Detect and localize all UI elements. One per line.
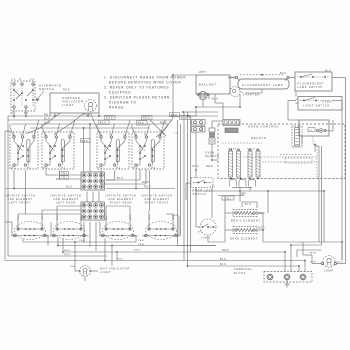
svg-text:RED: RED — [83, 113, 90, 116]
alternate switch — [11, 78, 36, 115]
svg-text:1. DISCONNECT RANGE FROM POWE: 1. DISCONNECT RANGE FROM POWER — [104, 76, 186, 80]
label infinite switch and element right front — [141, 195, 172, 205]
wires oven sensor area — [193, 121, 224, 170]
relay bake — [229, 147, 241, 177]
svg-text:BAKE ELEMENT: BAKE ELEMENT — [230, 237, 258, 240]
svg-text:L1: L1 — [12, 133, 16, 136]
wire alternate switch to harness — [14, 91, 44, 118]
svg-text:HOT INDICATOR: HOT INDICATOR — [100, 267, 130, 271]
relay contacts — [230, 178, 259, 202]
label hot indicator light — [100, 267, 130, 275]
svg-text:OVEN: OVEN — [322, 101, 332, 104]
wires between sw2 and sw3 down to connector — [81, 124, 91, 172]
svg-text:H1: H1 — [116, 167, 121, 170]
wire pair mid right verticals — [315, 146, 322, 242]
wires lamp — [311, 242, 346, 264]
svg-text:RED: RED — [206, 166, 213, 168]
svg-text:BROIL ELEMENT: BROIL ELEMENT — [231, 220, 261, 223]
svg-text:2b: 2b — [178, 236, 182, 238]
svg-text:BLOCK: BLOCK — [234, 272, 246, 275]
infinite switch left front — [10, 132, 38, 170]
wire stubs from switch bottom terminals — [14, 170, 150, 214]
svg-text:DIAGRAM TO: DIAGRAM TO — [109, 101, 137, 105]
svg-text:GRY: GRY — [81, 214, 83, 220]
svg-text:BLU: BLU — [106, 215, 108, 220]
wire bus below switches — [5, 186, 175, 189]
surface element right front — [142, 220, 182, 240]
svg-text:RED: RED — [143, 117, 150, 120]
svg-text:BLK: BLK — [66, 186, 73, 189]
ground — [285, 280, 290, 287]
svg-text:TAN: TAN — [70, 265, 76, 268]
surface indicator light — [50, 89, 99, 116]
svg-text:BLU: BLU — [245, 204, 252, 206]
svg-text:WHT: WHT — [310, 253, 317, 255]
svg-text:TAN: TAN — [138, 239, 144, 242]
svg-text:SENSOR: SENSOR — [205, 155, 220, 158]
svg-text:RIGHT REAR: RIGHT REAR — [110, 201, 132, 204]
hot indicator light — [79, 266, 91, 277]
wires top right — [173, 75, 346, 264]
svg-text:RIGHT FRONT: RIGHT FRONT — [145, 201, 170, 204]
svg-text:BLK: BLK — [220, 264, 227, 266]
oven light assembly — [292, 120, 329, 152]
svg-text:BLK: BLK — [220, 259, 227, 261]
label infinite switch and element left front — [4, 195, 35, 205]
bake element — [230, 227, 265, 241]
svg-text:TAN: TAN — [79, 239, 85, 242]
svg-text:LIMIT: LIMIT — [201, 237, 211, 240]
svg-text:LEFT FRONT: LEFT FRONT — [9, 201, 31, 204]
wire feeders into switch top terminals — [10, 120, 165, 136]
wires switches to connector upper — [56, 169, 149, 184]
wire middle bus verticals — [160, 75, 196, 266]
svg-text:H2: H2 — [134, 167, 139, 170]
wires hot indicator — [70, 242, 99, 281]
label infinite switch and element left rear — [50, 195, 81, 205]
wires right half connections — [186, 160, 218, 242]
svg-text:YEL: YEL — [61, 172, 68, 175]
svg-text:FLUORESCENT: FLUORESCENT — [298, 83, 325, 86]
svg-text:BLK: BLK — [117, 177, 124, 180]
oven control internal dashed wires — [222, 143, 317, 179]
svg-text:LAMP: LAMP — [324, 270, 334, 273]
terminal block — [234, 268, 312, 282]
door lock switch — [191, 178, 216, 196]
oven sensor — [192, 120, 220, 158]
wires oven elements — [225, 192, 263, 242]
svg-text:RED: RED — [173, 215, 180, 217]
starter — [230, 87, 260, 97]
connector block lower — [81, 202, 104, 220]
svg-text:BALLAST: BALLAST — [199, 83, 217, 87]
svg-text:H1: H1 — [151, 167, 156, 170]
svg-text:L2: L2 — [31, 78, 35, 81]
infinite switch right rear — [97, 132, 129, 170]
svg-text:YEL: YEL — [225, 199, 232, 201]
oven lamp — [321, 256, 336, 273]
svg-text:LAMP SWITCH: LAMP SWITCH — [298, 86, 324, 89]
svg-text:RED: RED — [117, 259, 124, 261]
svg-text:2b: 2b — [86, 236, 90, 238]
svg-text:H2: H2 — [12, 167, 17, 170]
fluorescent lamp switch — [295, 70, 332, 91]
notes — [104, 76, 186, 110]
svg-text:BLK: BLK — [325, 70, 332, 72]
svg-text:WHT: WHT — [228, 78, 235, 80]
svg-text:LIGHT SWITCH: LIGHT SWITCH — [303, 104, 330, 107]
wires connector block 1 to block 2 — [87, 192, 99, 203]
svg-text:BLK: BLK — [337, 262, 343, 264]
svg-text:RED: RED — [82, 141, 89, 143]
svg-text:2. REFER ONLY TO FEATURES: 2. REFER ONLY TO FEATURES — [104, 86, 169, 90]
infinite switch right front — [132, 132, 164, 170]
svg-text:H1: H1 — [27, 167, 32, 170]
svg-text:WHT: WHT — [199, 71, 207, 74]
svg-text:BLK: BLK — [138, 122, 145, 125]
surface element left front — [11, 220, 51, 240]
svg-text:L1: L1 — [99, 133, 103, 136]
svg-text:L1: L1 — [12, 78, 16, 81]
svg-text:TERMINAL: TERMINAL — [234, 268, 253, 271]
svg-text:EQUIPPED: EQUIPPED — [109, 91, 131, 95]
svg-text:BEFORE REMOVING WIRE COVER: BEFORE REMOVING WIRE COVER — [109, 81, 181, 85]
svg-text:RED: RED — [63, 89, 70, 92]
svg-text:L1: L1 — [134, 133, 138, 136]
svg-text:H2: H2 — [44, 167, 49, 170]
svg-text:RED: RED — [44, 113, 51, 116]
label infinite switch and element right rear — [105, 195, 136, 205]
svg-text:RELAYS: RELAYS — [251, 136, 266, 140]
svg-text:3. SERVICER PLEASE RETURN: 3. SERVICER PLEASE RETURN — [104, 96, 170, 100]
fluorescent lamp — [228, 73, 289, 89]
wire buses bottom right — [178, 238, 343, 272]
svg-text:NO: NO — [198, 231, 203, 233]
svg-text:RED: RED — [142, 181, 149, 184]
svg-text:RED: RED — [171, 115, 178, 117]
wire labels oven elements — [222, 194, 252, 207]
svg-text:FLUORESCENT LAMP: FLUORESCENT LAMP — [242, 83, 283, 87]
svg-text:YEL: YEL — [210, 186, 216, 188]
surface element right rear — [99, 220, 139, 240]
svg-text:H1: H1 — [61, 167, 66, 170]
svg-text:L2: L2 — [309, 130, 313, 132]
svg-text:BLU: BLU — [193, 166, 200, 168]
transformer — [225, 128, 238, 133]
svg-text:1b: 1b — [11, 236, 15, 238]
svg-text:BLK: BLK — [100, 121, 107, 124]
connector oven control top — [223, 120, 240, 126]
svg-text:RED: RED — [144, 186, 151, 189]
svg-text:OVEN CONTROL: OVEN CONTROL — [248, 125, 279, 129]
svg-text:1b: 1b — [99, 236, 103, 238]
wires elements to buses — [5, 206, 179, 246]
wires below oven control box — [196, 187, 324, 242]
svg-text:YEL: YEL — [61, 176, 68, 179]
svg-text:RED: RED — [258, 228, 265, 230]
svg-text:1b: 1b — [142, 236, 146, 238]
svg-text:BLK: BLK — [280, 73, 287, 75]
svg-text:LIGHT: LIGHT — [100, 270, 111, 274]
wire buses bottom left — [5, 238, 305, 266]
svg-text:RED: RED — [106, 117, 113, 120]
infinite switch left rear — [42, 132, 74, 170]
svg-text:BLK: BLK — [44, 117, 51, 120]
svg-text:1b: 1b — [50, 236, 54, 238]
oven light switch — [296, 91, 343, 110]
svg-text:L2: L2 — [174, 133, 178, 135]
svg-text:RED: RED — [64, 250, 71, 252]
svg-text:BLK: BLK — [181, 117, 188, 120]
surface element left rear — [50, 220, 90, 240]
svg-text:RED: RED — [64, 254, 71, 256]
wires connector block 2 down — [84, 222, 96, 251]
svg-text:BLK: BLK — [212, 98, 219, 101]
svg-text:RED: RED — [222, 250, 229, 252]
element wire labels — [18, 214, 175, 220]
harness wire labels — [44, 113, 190, 125]
svg-text:RED: RED — [134, 249, 141, 251]
svg-text:L1: L1 — [44, 133, 48, 136]
svg-text:TAN: TAN — [138, 243, 144, 246]
svg-text:W: W — [296, 103, 299, 105]
svg-text:W1: W1 — [11, 112, 16, 115]
svg-text:SWITCH: SWITCH — [39, 87, 55, 91]
limit switch — [198, 219, 216, 240]
svg-text:2b: 2b — [135, 236, 139, 238]
wire left edge verticals — [5, 116, 10, 261]
svg-text:P: P — [20, 78, 22, 81]
wire harness buses upper left — [8, 116, 196, 128]
label alternate switch — [39, 84, 62, 92]
svg-text:LEFT REAR: LEFT REAR — [56, 201, 76, 204]
relay broil — [248, 148, 261, 177]
svg-text:RANGE.: RANGE. — [109, 106, 126, 110]
harness diagonal wires — [26, 113, 172, 137]
svg-text:LIGHT: LIGHT — [62, 103, 74, 107]
broil element — [231, 210, 265, 223]
ballast — [196, 71, 230, 101]
oven control box — [218, 124, 345, 179]
svg-text:H2: H2 — [99, 167, 104, 170]
connector block upper — [81, 172, 104, 190]
svg-text:SWITCH: SWITCH — [193, 193, 207, 196]
